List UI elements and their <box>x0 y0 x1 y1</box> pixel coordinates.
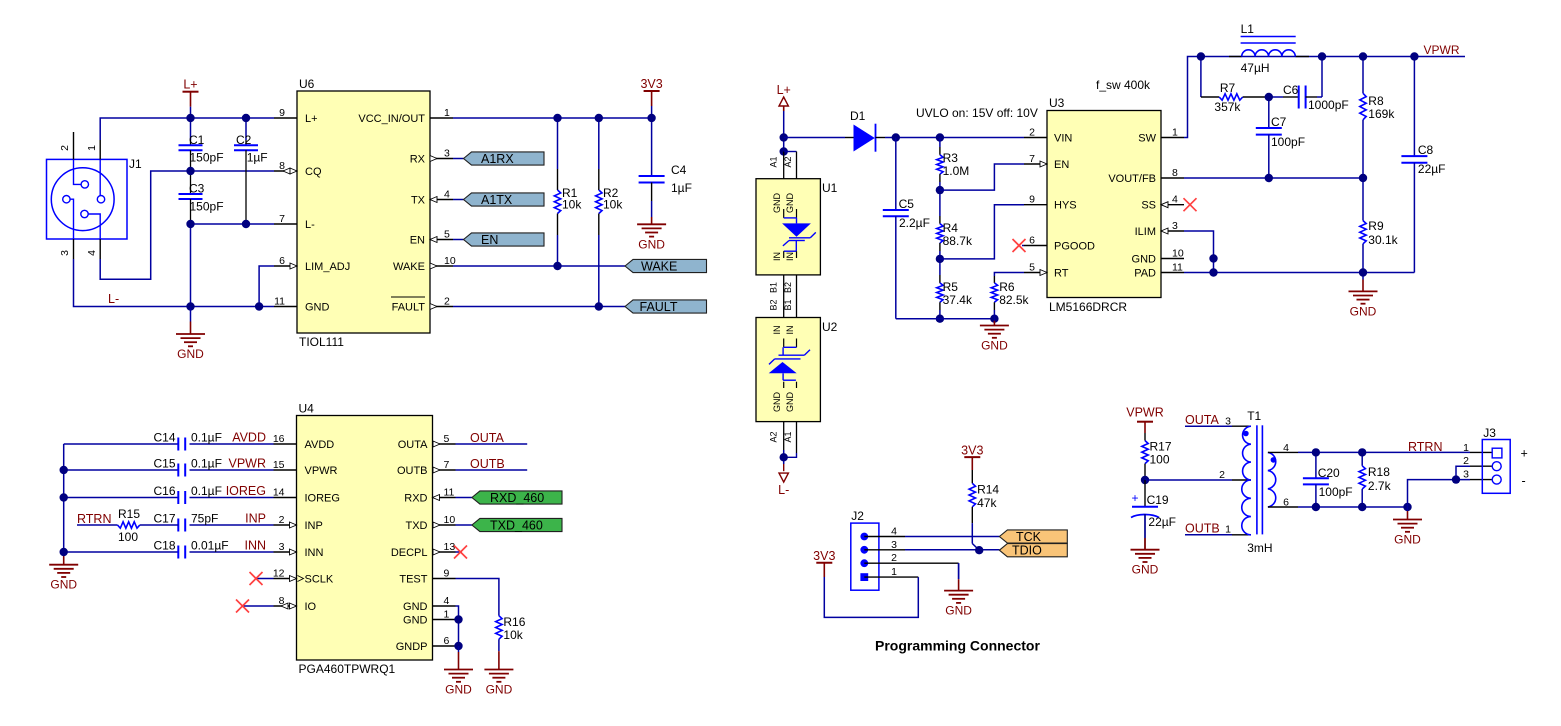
svg-text:INP: INP <box>305 520 323 532</box>
svg-text:6: 6 <box>1283 497 1289 509</box>
svg-text:B1: B1 <box>769 282 779 293</box>
svg-text:88.7k: 88.7k <box>943 234 973 248</box>
svg-text:5: 5 <box>444 229 450 241</box>
svg-text:A2: A2 <box>769 431 779 442</box>
svg-text:37.4k: 37.4k <box>943 293 973 307</box>
svg-text:A1: A1 <box>783 431 793 442</box>
svg-text:16: 16 <box>273 433 285 445</box>
svg-text:R3: R3 <box>943 151 959 165</box>
svg-text:A1: A1 <box>769 156 779 167</box>
svg-text:J1: J1 <box>129 157 142 171</box>
svg-text:3: 3 <box>279 541 285 553</box>
svg-text:WAKE: WAKE <box>393 261 425 273</box>
svg-text:GND: GND <box>981 339 1008 353</box>
svg-text:D1: D1 <box>850 109 866 123</box>
svg-text:7: 7 <box>279 213 285 225</box>
svg-text:1000pF: 1000pF <box>1308 98 1349 112</box>
svg-text:4: 4 <box>444 189 450 201</box>
svg-text:OUTB: OUTB <box>397 465 428 477</box>
svg-text:C18: C18 <box>153 539 175 553</box>
svg-text:9: 9 <box>279 107 285 119</box>
svg-text:VPWR: VPWR <box>1126 406 1164 420</box>
svg-text:22µF: 22µF <box>1418 162 1446 176</box>
svg-text:EN: EN <box>1054 159 1069 171</box>
svg-text:U3: U3 <box>1049 96 1065 110</box>
svg-text:14: 14 <box>273 487 285 499</box>
svg-text:10: 10 <box>1172 248 1184 260</box>
svg-text:3: 3 <box>444 148 450 160</box>
svg-text:R14: R14 <box>977 482 999 496</box>
svg-text:TX: TX <box>411 195 426 207</box>
svg-text:6: 6 <box>279 255 285 267</box>
svg-text:0.1µF: 0.1µF <box>191 484 222 498</box>
svg-text:C19: C19 <box>1147 493 1169 507</box>
svg-text:A1RX: A1RX <box>481 152 514 166</box>
svg-text:GND: GND <box>486 683 513 697</box>
svg-text:GND: GND <box>1132 254 1157 266</box>
svg-text:R17: R17 <box>1150 440 1172 454</box>
svg-text:PGA460TPWRQ1: PGA460TPWRQ1 <box>299 662 396 676</box>
svg-text:2: 2 <box>444 296 450 308</box>
svg-text:5: 5 <box>444 433 450 445</box>
svg-text:1: 1 <box>86 145 98 151</box>
svg-text:PGOOD: PGOOD <box>1054 241 1095 253</box>
svg-text:L+: L+ <box>183 78 197 92</box>
svg-text:OUTA: OUTA <box>1185 413 1219 427</box>
svg-text:SS: SS <box>1141 200 1156 212</box>
svg-text:B2: B2 <box>769 299 779 310</box>
svg-text:11: 11 <box>444 487 455 499</box>
svg-text:1: 1 <box>1463 442 1469 454</box>
svg-text:EN: EN <box>410 235 425 247</box>
svg-text:TIOL111: TIOL111 <box>299 335 344 349</box>
svg-text:SCLK: SCLK <box>305 574 334 586</box>
svg-text:3V3: 3V3 <box>640 77 662 91</box>
svg-text:PAD: PAD <box>1134 268 1156 280</box>
svg-text:C8: C8 <box>1418 143 1434 157</box>
svg-text:AVDD: AVDD <box>232 431 266 445</box>
svg-text:8: 8 <box>1172 167 1178 179</box>
svg-text:7: 7 <box>444 459 450 471</box>
svg-text:1.0M: 1.0M <box>943 164 970 178</box>
svg-text:OUTA: OUTA <box>398 439 428 451</box>
svg-text:2.7k: 2.7k <box>1368 479 1392 493</box>
svg-text:L-: L- <box>108 292 119 306</box>
svg-text:L-: L- <box>305 219 315 231</box>
svg-text:SW: SW <box>1138 133 1156 145</box>
svg-text:11: 11 <box>274 296 285 308</box>
svg-text:IOREG: IOREG <box>226 484 266 498</box>
svg-text:FAULT: FAULT <box>392 302 426 314</box>
svg-text:VOUT/FB: VOUT/FB <box>1108 173 1156 185</box>
svg-text:30.1k: 30.1k <box>1368 233 1398 247</box>
svg-text:1: 1 <box>891 566 897 578</box>
svg-text:6: 6 <box>1029 235 1035 247</box>
svg-text:DECPL: DECPL <box>391 547 428 559</box>
svg-text:100: 100 <box>118 530 138 544</box>
svg-text:CQ: CQ <box>305 166 322 178</box>
svg-text:RX: RX <box>410 154 426 166</box>
svg-text:R9: R9 <box>1368 219 1384 233</box>
svg-text:0.1µF: 0.1µF <box>191 431 222 445</box>
svg-text:A2: A2 <box>783 156 793 167</box>
svg-text:C3: C3 <box>189 182 205 196</box>
svg-text:C4: C4 <box>671 163 687 177</box>
svg-text:11: 11 <box>1172 262 1183 274</box>
svg-text:IO: IO <box>305 601 317 613</box>
svg-text:GND: GND <box>403 615 428 627</box>
svg-text:3mH: 3mH <box>1247 541 1272 555</box>
svg-text:TEST: TEST <box>399 574 427 586</box>
svg-text:100: 100 <box>1150 453 1170 467</box>
svg-text:INN: INN <box>305 547 324 559</box>
svg-text:UVLO on: 15V off: 10V: UVLO on: 15V off: 10V <box>916 106 1038 120</box>
svg-text:1µF: 1µF <box>247 151 268 165</box>
svg-text:TXD_460: TXD_460 <box>490 518 543 532</box>
svg-text:47k: 47k <box>977 496 997 510</box>
svg-text:R15: R15 <box>118 507 140 521</box>
svg-text:15: 15 <box>273 459 285 471</box>
svg-text:GND: GND <box>785 392 795 413</box>
svg-text:IN: IN <box>785 252 795 261</box>
svg-text:3: 3 <box>59 250 71 256</box>
svg-text:2: 2 <box>1219 469 1225 481</box>
svg-text:U6: U6 <box>299 77 315 91</box>
svg-text:3V3: 3V3 <box>961 444 983 458</box>
svg-text:U4: U4 <box>299 402 315 416</box>
svg-text:VIN: VIN <box>1054 133 1072 145</box>
svg-text:L+: L+ <box>305 113 318 125</box>
svg-text:B2: B2 <box>783 282 793 293</box>
svg-text:OUTA: OUTA <box>470 431 504 445</box>
svg-text:IN: IN <box>772 326 782 335</box>
svg-text:2: 2 <box>1463 455 1469 467</box>
svg-text:GND: GND <box>1132 563 1159 577</box>
svg-text:82.5k: 82.5k <box>999 293 1029 307</box>
svg-text:1: 1 <box>444 107 450 119</box>
svg-text:4: 4 <box>1172 194 1178 206</box>
svg-text:-: - <box>1522 474 1526 488</box>
svg-text:9: 9 <box>1029 194 1035 206</box>
svg-text:AVDD: AVDD <box>305 439 335 451</box>
svg-text:f_sw 400k: f_sw 400k <box>1096 78 1151 92</box>
svg-text:GND: GND <box>403 601 428 613</box>
svg-text:C7: C7 <box>1271 115 1287 129</box>
svg-text:4: 4 <box>1283 442 1289 454</box>
svg-text:R8: R8 <box>1368 94 1384 108</box>
svg-text:C6: C6 <box>1283 83 1299 97</box>
svg-text:1: 1 <box>1172 127 1178 139</box>
svg-text:R18: R18 <box>1368 465 1390 479</box>
svg-text:C16: C16 <box>153 484 175 498</box>
svg-text:1: 1 <box>1225 524 1231 536</box>
svg-text:3: 3 <box>891 539 897 551</box>
svg-text:+: + <box>1131 491 1138 505</box>
svg-text:RTRN: RTRN <box>77 512 112 526</box>
svg-text:2.2µF: 2.2µF <box>899 216 930 230</box>
svg-text:GND: GND <box>785 193 795 214</box>
svg-text:C5: C5 <box>899 197 915 211</box>
svg-text:RXD: RXD <box>404 493 427 505</box>
svg-text:ILIM: ILIM <box>1135 226 1156 238</box>
svg-text:IOREG: IOREG <box>305 493 340 505</box>
svg-text:GND: GND <box>177 347 204 361</box>
svg-text:3: 3 <box>1463 469 1469 481</box>
svg-text:RTRN: RTRN <box>1408 440 1443 454</box>
svg-text:GND: GND <box>1350 304 1377 318</box>
svg-text:1µF: 1µF <box>671 181 692 195</box>
svg-text:1: 1 <box>444 609 450 621</box>
svg-text:C2: C2 <box>236 133 252 147</box>
svg-text:IN: IN <box>772 252 782 261</box>
svg-text:12: 12 <box>273 568 285 580</box>
svg-text:L1: L1 <box>1241 22 1255 36</box>
svg-text:GNDP: GNDP <box>396 641 428 653</box>
svg-text:GND: GND <box>1394 533 1421 547</box>
svg-text:GND: GND <box>305 302 330 314</box>
svg-text:J3: J3 <box>1483 426 1496 440</box>
svg-text:INP: INP <box>245 512 266 526</box>
svg-text:169k: 169k <box>1368 107 1395 121</box>
svg-text:TCK: TCK <box>1016 530 1042 544</box>
svg-text:C17: C17 <box>153 512 175 526</box>
svg-text:R6: R6 <box>999 280 1015 294</box>
svg-text:R16: R16 <box>503 615 525 629</box>
svg-text:357k: 357k <box>1214 100 1241 114</box>
svg-text:GND: GND <box>445 683 472 697</box>
svg-text:3V3: 3V3 <box>813 549 835 563</box>
svg-text:C14: C14 <box>153 431 175 445</box>
svg-text:47µH: 47µH <box>1241 61 1270 75</box>
svg-text:VPWR: VPWR <box>305 465 338 477</box>
svg-text:U2: U2 <box>822 320 838 334</box>
svg-text:TXD: TXD <box>406 520 428 532</box>
svg-text:R7: R7 <box>1220 81 1236 95</box>
svg-text:EN: EN <box>481 233 498 247</box>
svg-text:10k: 10k <box>562 198 582 212</box>
svg-text:VPWR: VPWR <box>1424 43 1460 57</box>
svg-text:INN: INN <box>244 539 266 553</box>
svg-text:RXD_460: RXD_460 <box>490 491 544 505</box>
svg-text:L-: L- <box>778 483 789 497</box>
svg-text:GND: GND <box>772 392 782 413</box>
svg-text:3: 3 <box>1225 416 1231 428</box>
svg-text:150pF: 150pF <box>190 199 224 213</box>
svg-text:HYS: HYS <box>1054 200 1077 212</box>
svg-text:75pF: 75pF <box>191 512 218 526</box>
svg-text:TDIO: TDIO <box>1012 544 1042 558</box>
svg-text:OUTB: OUTB <box>470 457 505 471</box>
svg-text:IN: IN <box>785 326 795 335</box>
svg-text:10k: 10k <box>503 628 523 642</box>
svg-text:3: 3 <box>1172 220 1178 232</box>
svg-text:T1: T1 <box>1247 409 1261 423</box>
svg-text:WAKE: WAKE <box>641 259 677 273</box>
svg-text:7: 7 <box>1029 153 1035 165</box>
svg-text:OUTB: OUTB <box>1185 522 1220 536</box>
svg-text:B1: B1 <box>783 299 793 310</box>
svg-text:GND: GND <box>945 604 972 618</box>
svg-text:J2: J2 <box>851 509 864 523</box>
svg-text:U1: U1 <box>822 181 838 195</box>
svg-text:13: 13 <box>444 541 456 553</box>
svg-text:A1TX: A1TX <box>481 193 513 207</box>
svg-text:2: 2 <box>279 514 285 526</box>
svg-text:10: 10 <box>444 514 456 526</box>
svg-text:L+: L+ <box>777 83 791 97</box>
svg-text:GND: GND <box>50 578 77 592</box>
svg-text:Programming Connector: Programming Connector <box>875 638 1040 654</box>
svg-text:100pF: 100pF <box>1319 485 1353 499</box>
svg-text:GND: GND <box>638 237 665 251</box>
svg-text:6: 6 <box>444 635 450 647</box>
svg-text:GND: GND <box>772 193 782 214</box>
svg-text:10: 10 <box>444 255 456 267</box>
svg-text:FAULT: FAULT <box>640 300 678 314</box>
svg-text:C20: C20 <box>1318 466 1340 480</box>
svg-text:5: 5 <box>1029 262 1035 274</box>
svg-text:LIM_ADJ: LIM_ADJ <box>305 261 350 273</box>
svg-text:2: 2 <box>59 145 71 151</box>
svg-text:2: 2 <box>891 552 897 564</box>
svg-text:4: 4 <box>86 250 98 256</box>
svg-text:C1: C1 <box>189 133 205 147</box>
svg-text:0.01µF: 0.01µF <box>191 539 229 553</box>
svg-text:LM5166DRCR: LM5166DRCR <box>1049 300 1127 314</box>
svg-text:2: 2 <box>1029 127 1035 139</box>
svg-text:+: + <box>1521 447 1528 461</box>
svg-text:22µF: 22µF <box>1148 515 1176 529</box>
svg-text:150pF: 150pF <box>190 151 224 165</box>
svg-text:100pF: 100pF <box>1271 135 1305 149</box>
svg-text:4: 4 <box>891 526 897 538</box>
svg-text:VCC_IN/OUT: VCC_IN/OUT <box>358 113 425 125</box>
svg-text:VPWR: VPWR <box>229 457 267 471</box>
svg-text:0.1µF: 0.1µF <box>191 457 222 471</box>
svg-text:R5: R5 <box>943 280 959 294</box>
svg-text:10k: 10k <box>603 198 623 212</box>
svg-text:R4: R4 <box>943 221 959 235</box>
svg-text:C15: C15 <box>153 457 175 471</box>
svg-text:9: 9 <box>444 568 450 580</box>
svg-text:RT: RT <box>1054 268 1069 280</box>
svg-text:4: 4 <box>444 595 450 607</box>
